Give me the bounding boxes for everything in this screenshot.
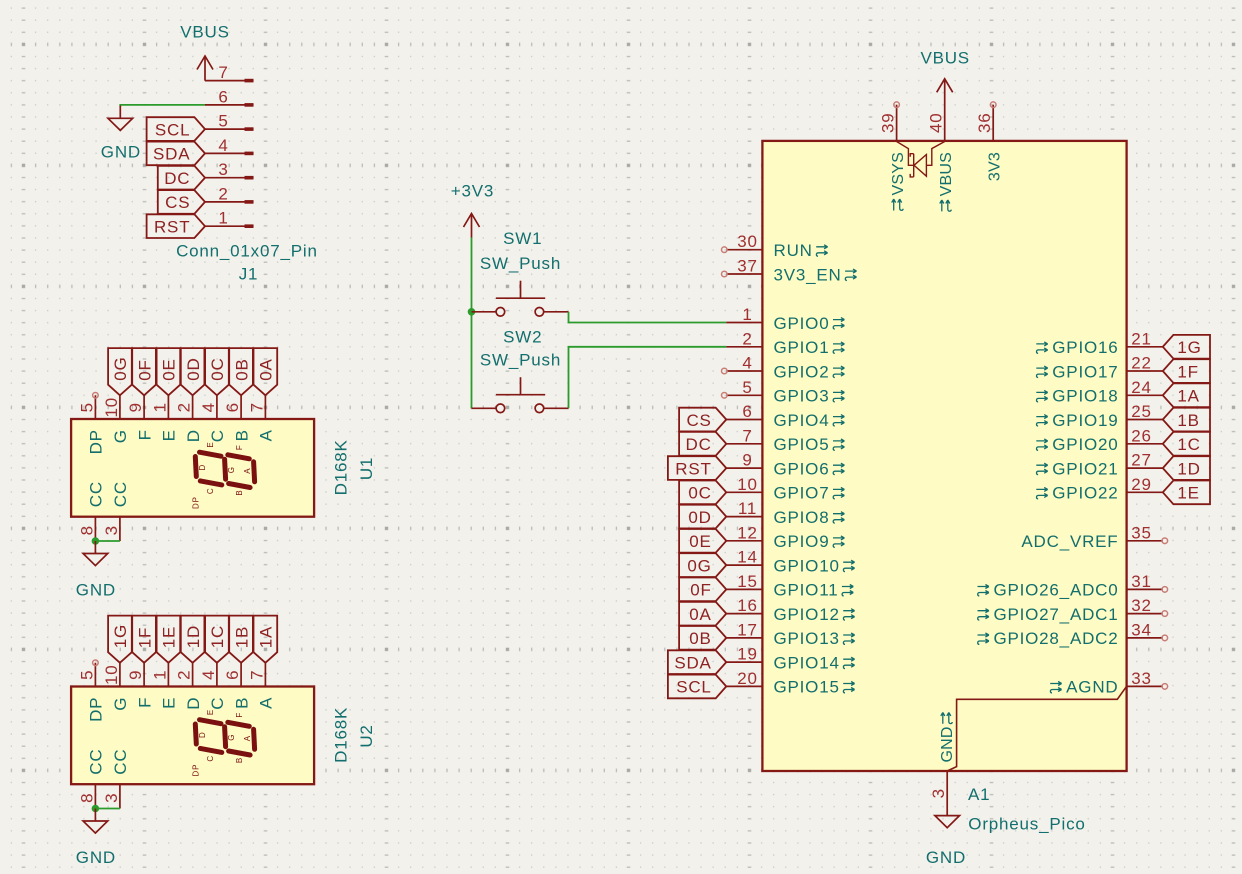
pin name VBUS: [938, 152, 955, 211]
svg-text:1F: 1F: [1177, 362, 1198, 381]
hierarchical label 0G (U1 pin 10): [108, 348, 132, 395]
svg-text:1B: 1B: [1177, 411, 1199, 430]
svg-text:GPIO5: GPIO5: [774, 435, 830, 454]
pin 7 (U1 A): [247, 395, 275, 441]
svg-text:CS: CS: [686, 411, 711, 430]
svg-text:SDA: SDA: [153, 145, 190, 164]
svg-text:D: D: [198, 731, 207, 738]
pin name VSYS: [890, 152, 907, 211]
pin 19 (A1 GPIO14): [726, 645, 854, 673]
svg-text:1A: 1A: [257, 626, 276, 648]
pin 27 (A1 GPIO21): [1036, 451, 1163, 479]
svg-text:0G: 0G: [687, 556, 711, 575]
svg-text:36: 36: [975, 113, 994, 134]
pin 8 (U2 CC): [77, 749, 105, 809]
pin 31 (A1 GPIO26_ADC0): [978, 572, 1168, 600]
pin 9 (U1 F): [126, 395, 154, 440]
pin 6 (U2 B): [223, 663, 251, 709]
svg-text:1: 1: [742, 305, 752, 324]
svg-text:GPIO19: GPIO19: [1052, 411, 1118, 430]
svg-text:DP: DP: [192, 764, 201, 777]
pin 36 (A1 3V3): [975, 102, 996, 141]
hierarchical label 0C (U1 pin 4): [205, 348, 229, 395]
svg-text:1G: 1G: [111, 624, 130, 648]
svg-text:GPIO22: GPIO22: [1052, 484, 1118, 503]
pin 9 (U2 F): [126, 663, 154, 708]
ground GND (A1): [926, 816, 966, 867]
hierarchical label 0G (A1 pin 14): [679, 553, 726, 577]
svg-text:DC: DC: [164, 169, 190, 188]
svg-text:15: 15: [737, 572, 758, 591]
svg-text:SW1: SW1: [503, 229, 542, 248]
hierarchical label 1B (A1 pin 25): [1163, 408, 1210, 432]
svg-text:GPIO3: GPIO3: [774, 387, 830, 406]
svg-text:CS: CS: [165, 193, 190, 212]
hierarchical label 0A (U1 pin 7): [254, 348, 278, 395]
svg-text:GPIO9: GPIO9: [774, 532, 830, 551]
svg-text:DP: DP: [87, 697, 106, 722]
svg-text:0G: 0G: [111, 356, 130, 380]
svg-text:0D: 0D: [184, 357, 203, 380]
svg-text:5: 5: [742, 378, 752, 397]
7-segment digit graphic U1: [192, 441, 255, 509]
pin 34 (A1 GPIO28_ADC2): [978, 620, 1168, 648]
pin 39 (A1 VSYS): [879, 102, 900, 141]
svg-text:1C: 1C: [1177, 435, 1200, 454]
svg-text:GPIO11: GPIO11: [774, 581, 839, 600]
pin 7 (J1): [205, 63, 254, 82]
svg-text:GPIO4: GPIO4: [774, 411, 830, 430]
hierarchical label 1D (A1 pin 27): [1163, 456, 1210, 480]
hierarchical label SDA (A1 pin 19): [668, 650, 726, 674]
svg-text:CC: CC: [87, 749, 106, 775]
svg-text:GPIO16: GPIO16: [1052, 338, 1118, 357]
power symbol +3V3: [451, 181, 494, 237]
svg-text:GPIO17: GPIO17: [1052, 362, 1118, 381]
svg-text:A1: A1: [968, 785, 990, 804]
svg-text:10: 10: [102, 665, 121, 686]
ground GND (J1): [101, 106, 141, 162]
svg-text:SW2: SW2: [503, 327, 542, 346]
pin 24 (A1 GPIO18): [1036, 378, 1163, 406]
svg-text:17: 17: [737, 620, 758, 639]
hierarchical label 0B (U1 pin 6): [229, 348, 253, 395]
svg-text:GPIO12: GPIO12: [774, 605, 840, 624]
hierarchical label DC (A1 pin 7): [679, 432, 726, 456]
svg-text:F: F: [135, 429, 154, 440]
svg-text:9: 9: [126, 402, 145, 412]
pin 1 (J1): [205, 209, 254, 228]
svg-text:19: 19: [737, 645, 758, 664]
svg-text:3V3: 3V3: [987, 152, 1004, 181]
svg-text:0D: 0D: [688, 508, 711, 527]
svg-text:32: 32: [1131, 596, 1152, 615]
pin 25 (A1 GPIO19): [1036, 402, 1163, 430]
pin 7 (A1 GPIO5): [726, 426, 844, 454]
pin 14 (A1 GPIO10): [726, 548, 854, 576]
hierarchical label 0C (A1 pin 10): [679, 481, 726, 505]
svg-text:16: 16: [737, 596, 758, 615]
svg-text:39: 39: [879, 113, 898, 134]
pin 8 (U1 CC): [77, 481, 105, 541]
svg-text:GPIO6: GPIO6: [774, 459, 830, 478]
hierarchical label 0B (A1 pin 17): [679, 626, 726, 650]
svg-text:1D: 1D: [184, 625, 203, 648]
svg-text:6: 6: [218, 87, 228, 106]
hierarchical label 0D (A1 pin 11): [679, 505, 726, 529]
svg-text:GND: GND: [939, 726, 956, 762]
pin 4 (U1 C): [199, 395, 227, 442]
power symbol VBUS (J1 pin 7): [180, 23, 230, 81]
svg-text:29: 29: [1131, 475, 1152, 494]
svg-text:7: 7: [247, 402, 266, 412]
svg-text:1: 1: [150, 670, 169, 680]
pin 2 (U2 D): [175, 663, 203, 710]
svg-text:4: 4: [218, 136, 228, 155]
ground GND (U1): [76, 541, 116, 600]
svg-text:GPIO21: GPIO21: [1052, 459, 1118, 478]
svg-text:G: G: [111, 429, 130, 443]
svg-text:1E: 1E: [1177, 484, 1199, 503]
pin 29 (A1 GPIO22): [1036, 475, 1163, 503]
svg-text:A: A: [257, 429, 276, 441]
hierarchical label SDA (J1 pin 4): [147, 142, 205, 166]
svg-text:9: 9: [742, 451, 752, 470]
svg-text:2: 2: [175, 670, 194, 680]
svg-text:8: 8: [77, 793, 96, 803]
svg-text:21: 21: [1131, 329, 1152, 348]
svg-text:F: F: [135, 697, 154, 708]
hierarchical label SCL (A1 pin 20): [668, 675, 726, 699]
svg-text:0F: 0F: [135, 359, 154, 380]
svg-text:VBUS: VBUS: [938, 152, 955, 196]
svg-text:C: C: [208, 429, 227, 442]
svg-text:1E: 1E: [160, 626, 179, 648]
svg-text:6: 6: [742, 402, 752, 421]
svg-text:6: 6: [223, 402, 242, 412]
hierarchical label 1G (A1 pin 21): [1163, 335, 1210, 359]
svg-text:GPIO0: GPIO0: [774, 314, 830, 333]
pin 5 (U2 DP): [77, 663, 105, 722]
svg-text:A: A: [243, 735, 252, 741]
svg-text:GPIO28_ADC2: GPIO28_ADC2: [993, 629, 1118, 648]
svg-text:GPIO14: GPIO14: [774, 653, 840, 672]
svg-text:5: 5: [218, 112, 228, 131]
pin 3 (U1 CC): [102, 481, 130, 541]
pin 5 (U1 DP): [77, 395, 105, 454]
svg-text:GND: GND: [76, 848, 116, 867]
body U2: [71, 687, 314, 785]
hierarchical label 0E (U1 pin 1): [157, 348, 181, 395]
svg-text:GPIO20: GPIO20: [1052, 435, 1118, 454]
svg-text:1: 1: [218, 209, 228, 228]
body U1: [71, 419, 314, 517]
svg-text:24: 24: [1131, 378, 1152, 397]
pin 9 (A1 GPIO6): [726, 451, 844, 479]
wire +3V3 rail (vertical): [471, 238, 473, 409]
svg-text:12: 12: [737, 523, 758, 542]
pin 37 (A1 3V3_EN): [722, 257, 857, 285]
svg-text:D: D: [198, 464, 207, 471]
svg-text:+3V3: +3V3: [451, 181, 494, 200]
pin 2 (J1): [205, 184, 254, 203]
svg-text:GND: GND: [101, 143, 141, 162]
pin 3 (J1): [205, 160, 254, 179]
svg-text:RUN: RUN: [774, 241, 813, 260]
svg-text:A: A: [243, 468, 252, 474]
svg-text:0B: 0B: [232, 358, 251, 380]
wire U2 pin 3 to pin 8: [95, 808, 120, 810]
svg-text:SDA: SDA: [674, 653, 711, 672]
svg-text:1C: 1C: [208, 625, 227, 648]
body A1 Orpheus_Pico: [762, 141, 1126, 771]
svg-text:4: 4: [199, 670, 218, 680]
svg-text:G: G: [111, 697, 130, 711]
wire J1 pin 6 to GND: [120, 105, 205, 107]
svg-text:AGND: AGND: [1066, 678, 1118, 697]
svg-text:Conn_01x07_Pin: Conn_01x07_Pin: [176, 241, 318, 260]
wire SW1 to GPIO0: [569, 312, 727, 323]
svg-text:DP: DP: [87, 429, 106, 454]
hierarchical label CS (J1 pin 2): [158, 190, 205, 214]
pin 7 (U2 A): [247, 663, 275, 709]
hierarchical label 1A (U2 pin 7): [254, 616, 278, 663]
svg-text:VBUS: VBUS: [920, 48, 970, 67]
svg-text:GPIO27_ADC1: GPIO27_ADC1: [993, 605, 1118, 624]
pin 16 (A1 GPIO12): [726, 596, 854, 624]
hierarchical label 1F (A1 pin 22): [1163, 359, 1210, 383]
wire U1 pin 3 to pin 8: [95, 540, 120, 542]
unconnected pin end (U2 pin 5): [93, 660, 99, 666]
pin 1 (A1 GPIO0): [726, 305, 844, 333]
svg-text:7: 7: [218, 63, 228, 82]
svg-text:35: 35: [1131, 523, 1152, 542]
pin 17 (A1 GPIO13): [726, 620, 854, 648]
hierarchical label 0F (U1 pin 9): [132, 348, 156, 395]
svg-text:4: 4: [199, 402, 218, 412]
svg-text:CC: CC: [111, 749, 130, 775]
svg-text:SW_Push: SW_Push: [480, 351, 561, 370]
svg-text:26: 26: [1131, 426, 1152, 445]
hierarchical label 0D (U1 pin 2): [181, 348, 205, 395]
svg-text:F: F: [235, 444, 244, 450]
pin name GND (rotated): [939, 712, 956, 762]
svg-text:E: E: [160, 429, 179, 441]
pin 22 (A1 GPIO17): [1036, 354, 1163, 382]
svg-text:B: B: [235, 757, 244, 763]
svg-text:CC: CC: [111, 481, 130, 507]
svg-text:C: C: [206, 755, 215, 762]
pin 5 (J1): [205, 112, 254, 131]
svg-text:RST: RST: [154, 218, 190, 237]
svg-text:30: 30: [737, 232, 758, 251]
svg-text:1G: 1G: [1177, 338, 1201, 357]
pin 2 (A1 GPIO1): [726, 329, 844, 357]
pin 11 (A1 GPIO8): [726, 499, 844, 527]
pin 20 (A1 GPIO15): [726, 669, 854, 697]
svg-text:1F: 1F: [135, 627, 154, 648]
pin 1 (U1 E): [150, 395, 178, 441]
svg-text:SW_Push: SW_Push: [480, 254, 561, 273]
svg-text:3: 3: [218, 160, 228, 179]
svg-text:1A: 1A: [1177, 387, 1199, 406]
svg-text:0C: 0C: [208, 357, 227, 380]
svg-text:0B: 0B: [689, 629, 711, 648]
hierarchical label SCL (J1 pin 5): [147, 117, 205, 141]
hierarchical label 1E (A1 pin 29): [1163, 481, 1210, 505]
hierarchical label 1G (U2 pin 10): [108, 616, 132, 663]
svg-text:2: 2: [175, 402, 194, 412]
switch SW1 SW_Push: [472, 281, 569, 316]
svg-text:25: 25: [1131, 402, 1152, 421]
hierarchical label 0A (A1 pin 16): [679, 602, 726, 626]
junction (U1 ground): [92, 537, 100, 545]
hierarchical label RST (A1 pin 9): [668, 456, 726, 480]
svg-text:DP: DP: [192, 496, 201, 509]
svg-text:1B: 1B: [232, 626, 251, 648]
svg-text:G: G: [227, 734, 236, 741]
ground GND (U2): [76, 809, 116, 868]
pin 4 (A1 GPIO2): [722, 354, 845, 382]
svg-text:31: 31: [1131, 572, 1152, 591]
pin 6 (J1): [205, 87, 254, 106]
svg-text:5: 5: [77, 402, 96, 412]
svg-text:VBUS: VBUS: [180, 23, 230, 42]
pin 3 (U2 CC): [102, 749, 130, 809]
pin 1 (U2 E): [150, 663, 178, 709]
hierarchical label DC (J1 pin 3): [158, 166, 205, 190]
svg-text:B: B: [232, 697, 251, 709]
pin 10 (U2 G): [102, 663, 130, 711]
hierarchical label 1E (U2 pin 1): [157, 616, 181, 663]
svg-text:G: G: [227, 466, 236, 473]
svg-text:B: B: [235, 489, 244, 495]
svg-text:SCL: SCL: [155, 120, 190, 139]
svg-text:GPIO8: GPIO8: [774, 508, 830, 527]
svg-text:GPIO18: GPIO18: [1052, 387, 1118, 406]
svg-text:GPIO26_ADC0: GPIO26_ADC0: [993, 581, 1118, 600]
hierarchical label 1F (U2 pin 9): [132, 616, 156, 663]
pin 4 (U2 C): [199, 663, 227, 710]
svg-text:20: 20: [737, 669, 758, 688]
svg-text:GPIO7: GPIO7: [774, 484, 830, 503]
7-segment digit graphic U2: [192, 709, 255, 777]
unconnected pin end (U1 pin 5): [93, 393, 99, 399]
svg-text:27: 27: [1131, 451, 1152, 470]
svg-text:0C: 0C: [688, 484, 711, 503]
pin 10 (A1 GPIO7): [726, 475, 844, 503]
pin 3 (A1 GND): [929, 771, 948, 816]
pin 6 (U1 B): [223, 395, 251, 441]
svg-text:U2: U2: [357, 724, 376, 747]
internal AGND/GND line: [947, 686, 1126, 771]
svg-text:3: 3: [929, 788, 948, 798]
svg-text:C: C: [206, 488, 215, 495]
pin 35 (A1 ADC_VREF): [1021, 523, 1167, 551]
svg-text:E: E: [160, 697, 179, 709]
svg-text:4: 4: [742, 354, 752, 373]
svg-text:SCL: SCL: [676, 678, 711, 697]
pin 26 (A1 GPIO20): [1036, 426, 1163, 454]
svg-text:7: 7: [742, 426, 752, 445]
svg-text:D: D: [184, 429, 203, 442]
svg-text:33: 33: [1131, 669, 1152, 688]
internal diode VBUS to VSYS: [897, 142, 945, 177]
svg-text:14: 14: [737, 548, 758, 567]
svg-text:C: C: [208, 697, 227, 710]
svg-text:GPIO15: GPIO15: [774, 678, 840, 697]
pin 33 (A1 AGND): [1050, 669, 1167, 697]
svg-text:D168K: D168K: [332, 439, 351, 495]
svg-text:ADC_VREF: ADC_VREF: [1021, 532, 1118, 551]
svg-text:CC: CC: [87, 481, 106, 507]
svg-text:DC: DC: [686, 435, 712, 454]
svg-text:GND: GND: [76, 581, 116, 600]
svg-text:3V3_EN: 3V3_EN: [774, 265, 842, 284]
svg-text:F: F: [235, 712, 244, 718]
svg-text:J1: J1: [239, 265, 259, 284]
junction (U2 ground): [92, 805, 100, 813]
hierarchical label 0E (A1 pin 12): [679, 529, 726, 553]
svg-text:GPIO2: GPIO2: [774, 362, 830, 381]
hierarchical label 0F (A1 pin 15): [679, 578, 726, 602]
hierarchical label 1B (U2 pin 6): [229, 616, 253, 663]
pin 15 (A1 GPIO11): [726, 572, 853, 600]
svg-text:U1: U1: [357, 457, 376, 480]
pin 5 (A1 GPIO3): [722, 378, 845, 406]
svg-text:GPIO10: GPIO10: [774, 556, 840, 575]
hierarchical label RST (J1 pin 1): [147, 214, 205, 238]
svg-text:3: 3: [102, 525, 121, 535]
hierarchical label CS (A1 pin 6): [679, 408, 726, 432]
svg-text:34: 34: [1131, 620, 1152, 639]
svg-text:VSYS: VSYS: [890, 152, 907, 196]
wire SW2 to GPIO1: [569, 347, 727, 409]
svg-text:0A: 0A: [257, 358, 276, 380]
pin 30 (A1 RUN): [722, 232, 828, 260]
svg-text:0E: 0E: [689, 532, 711, 551]
svg-text:7: 7: [247, 670, 266, 680]
hierarchical label 1A (A1 pin 24): [1163, 383, 1210, 407]
svg-text:37: 37: [737, 257, 758, 276]
switch SW2 SW_Push: [472, 377, 569, 412]
pin 4 (J1): [205, 136, 254, 155]
svg-text:3: 3: [102, 793, 121, 803]
hierarchical label 1D (U2 pin 2): [181, 616, 205, 663]
hierarchical label 1C (A1 pin 26): [1163, 432, 1210, 456]
svg-text:40: 40: [927, 113, 946, 134]
pin 21 (A1 GPIO16): [1036, 329, 1163, 357]
pin 32 (A1 GPIO27_ADC1): [978, 596, 1168, 624]
pin 40 (A1 VBUS) + power symbol VBUS: [920, 48, 970, 141]
pin 12 (A1 GPIO9): [726, 523, 844, 551]
svg-text:11: 11: [738, 499, 757, 518]
pin 2 (U1 D): [175, 395, 203, 442]
svg-text:10: 10: [737, 475, 758, 494]
svg-text:1D: 1D: [1177, 459, 1200, 478]
svg-text:GND: GND: [926, 848, 966, 867]
svg-text:0E: 0E: [160, 358, 179, 380]
svg-text:GPIO13: GPIO13: [774, 629, 840, 648]
svg-text:0A: 0A: [689, 605, 711, 624]
svg-text:2: 2: [218, 184, 228, 203]
svg-text:10: 10: [102, 397, 121, 418]
svg-text:22: 22: [1131, 354, 1152, 373]
svg-text:GPIO1: GPIO1: [774, 338, 830, 357]
hierarchical label 1C (U2 pin 4): [205, 616, 229, 663]
svg-text:Orpheus_Pico: Orpheus_Pico: [968, 815, 1085, 834]
svg-text:9: 9: [126, 670, 145, 680]
